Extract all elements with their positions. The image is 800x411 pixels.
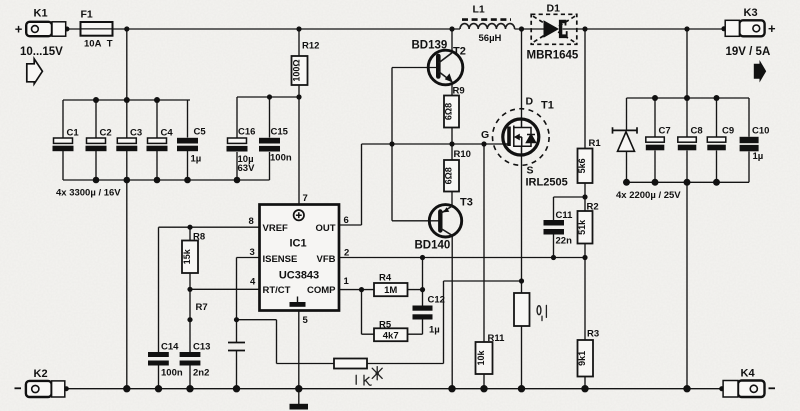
svg-text:7: 7 bbox=[303, 193, 308, 204]
svg-text:C2: C2 bbox=[100, 128, 112, 139]
svg-text:IC1: IC1 bbox=[289, 238, 306, 250]
svg-text:BD140: BD140 bbox=[415, 240, 451, 252]
svg-text:1µ: 1µ bbox=[429, 325, 440, 336]
svg-text:RT/CT: RT/CT bbox=[263, 285, 291, 296]
svg-text:F1: F1 bbox=[81, 9, 93, 21]
svg-text:R1: R1 bbox=[589, 138, 602, 149]
svg-text:22n: 22n bbox=[556, 236, 573, 247]
svg-text:6Ω8: 6Ω8 bbox=[444, 167, 454, 184]
svg-text:IRL2505: IRL2505 bbox=[526, 177, 568, 189]
svg-text:8: 8 bbox=[249, 216, 254, 227]
svg-text:4x 2200µ / 25V: 4x 2200µ / 25V bbox=[616, 190, 681, 201]
svg-text:+: + bbox=[15, 22, 23, 37]
svg-text:15k: 15k bbox=[182, 248, 192, 264]
svg-text:K4: K4 bbox=[741, 368, 756, 380]
svg-text:C3: C3 bbox=[130, 128, 142, 139]
svg-text:OUT: OUT bbox=[315, 223, 335, 234]
svg-text:VFB: VFB bbox=[317, 254, 336, 265]
svg-text:2: 2 bbox=[344, 248, 349, 259]
svg-text:R2: R2 bbox=[587, 202, 599, 213]
svg-text:D1: D1 bbox=[547, 3, 561, 15]
svg-text:K1: K1 bbox=[34, 8, 48, 20]
svg-text:R10: R10 bbox=[454, 149, 471, 160]
svg-text:K3: K3 bbox=[744, 7, 758, 19]
svg-text:UC3843: UC3843 bbox=[279, 270, 319, 282]
svg-text:C14: C14 bbox=[161, 342, 179, 353]
svg-text:D: D bbox=[526, 96, 534, 108]
svg-text:K2: K2 bbox=[34, 368, 48, 380]
svg-text:C15: C15 bbox=[271, 127, 289, 138]
svg-text:63V: 63V bbox=[238, 163, 256, 174]
svg-text:C8: C8 bbox=[691, 126, 703, 137]
svg-text:3: 3 bbox=[250, 247, 255, 258]
svg-text:C16: C16 bbox=[238, 127, 255, 138]
svg-text:56µH: 56µH bbox=[479, 33, 502, 44]
svg-text:S: S bbox=[527, 165, 534, 177]
svg-text:R8: R8 bbox=[193, 232, 205, 243]
svg-text:C4: C4 bbox=[161, 128, 174, 139]
svg-text:19V / 5A: 19V / 5A bbox=[726, 46, 771, 58]
svg-text:9k1: 9k1 bbox=[577, 351, 587, 366]
svg-text:C5: C5 bbox=[194, 127, 207, 138]
svg-text:C13: C13 bbox=[193, 342, 210, 353]
svg-text:4x 3300µ / 16V: 4x 3300µ / 16V bbox=[56, 188, 121, 199]
svg-text:L1: L1 bbox=[473, 4, 485, 16]
svg-text:100n: 100n bbox=[161, 368, 183, 379]
svg-text:MBR1645: MBR1645 bbox=[527, 50, 579, 62]
svg-text:1µ: 1µ bbox=[191, 154, 202, 165]
svg-text:ISENSE: ISENSE bbox=[263, 254, 298, 265]
svg-text:T2: T2 bbox=[453, 46, 466, 58]
svg-text:VREF: VREF bbox=[263, 223, 289, 234]
svg-text:R7: R7 bbox=[196, 302, 208, 313]
svg-text:G: G bbox=[481, 129, 489, 141]
svg-text:C7: C7 bbox=[659, 126, 671, 137]
svg-text:2n2: 2n2 bbox=[193, 368, 209, 379]
svg-text:6: 6 bbox=[344, 215, 349, 226]
svg-text:100Ω: 100Ω bbox=[291, 59, 301, 81]
svg-text:10k: 10k bbox=[476, 350, 486, 366]
svg-text:C12: C12 bbox=[428, 295, 445, 306]
svg-text:4k7: 4k7 bbox=[383, 330, 399, 341]
svg-text:R4: R4 bbox=[379, 273, 392, 284]
svg-text:T1: T1 bbox=[541, 100, 554, 112]
svg-text:100n: 100n bbox=[270, 153, 292, 164]
svg-text:R12: R12 bbox=[302, 41, 319, 52]
svg-text:6Ω8: 6Ω8 bbox=[444, 103, 454, 120]
svg-text:5: 5 bbox=[303, 315, 309, 326]
svg-text:+: + bbox=[768, 21, 776, 36]
svg-text:R3: R3 bbox=[587, 329, 599, 340]
svg-text:1µ: 1µ bbox=[753, 151, 764, 162]
svg-text:C10: C10 bbox=[752, 126, 769, 137]
svg-text:1M: 1M bbox=[384, 285, 397, 296]
svg-text:10A T: 10A T bbox=[84, 38, 113, 49]
svg-text:T3: T3 bbox=[460, 197, 473, 209]
svg-text:5k6: 5k6 bbox=[577, 158, 587, 173]
svg-text:BD139: BD139 bbox=[412, 40, 448, 52]
svg-text:C11: C11 bbox=[556, 210, 574, 221]
svg-text:R11: R11 bbox=[488, 333, 506, 344]
svg-text:1: 1 bbox=[344, 276, 350, 287]
svg-text:R9: R9 bbox=[453, 86, 465, 97]
svg-text:COMP: COMP bbox=[307, 285, 336, 296]
svg-text:10...15V: 10...15V bbox=[20, 46, 63, 58]
svg-text:C1: C1 bbox=[67, 128, 80, 139]
svg-text:C9: C9 bbox=[722, 126, 734, 137]
svg-text:R5: R5 bbox=[379, 320, 392, 331]
svg-text:4: 4 bbox=[250, 277, 256, 288]
svg-text:51k: 51k bbox=[577, 219, 587, 235]
